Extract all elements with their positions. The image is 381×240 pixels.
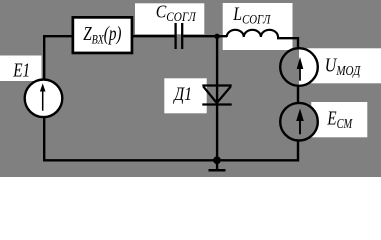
svg-text:E1: E1: [12, 59, 30, 81]
svg-text:Д1: Д1: [173, 84, 192, 105]
